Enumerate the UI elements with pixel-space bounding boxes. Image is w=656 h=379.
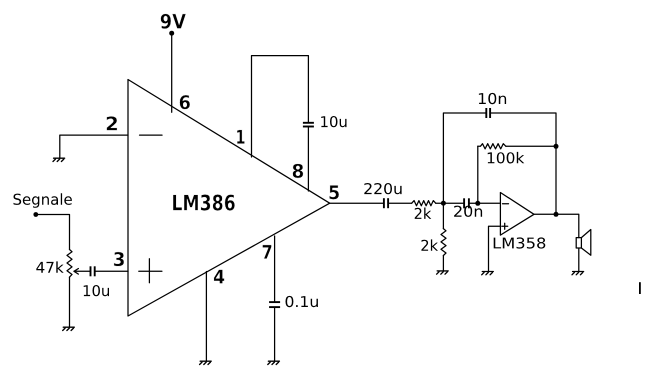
speaker LS1 bbox=[576, 230, 591, 256]
ground potentiometer bbox=[63, 327, 75, 330]
capacitor C3 220u bbox=[384, 198, 388, 208]
pin 5 label bbox=[329, 185, 339, 199]
op-amp U1 LM386 body bbox=[128, 80, 330, 317]
value label 0.1u bbox=[286, 296, 318, 307]
wire pin 1 loop bbox=[252, 56, 309, 157]
wire node A up to C4 bbox=[443, 113, 486, 203]
node B junction dot bbox=[475, 201, 480, 206]
wire C6 to ground bbox=[274, 307, 276, 361]
capacitor C4 10n bbox=[486, 108, 490, 118]
resistor R3 2k shunt bbox=[441, 229, 446, 256]
wire R3 to ground bbox=[442, 256, 444, 271]
wire speaker to ground bbox=[578, 248, 580, 271]
wire pin 4 to ground bbox=[205, 272, 207, 361]
value label 2k shunt bbox=[421, 239, 438, 250]
wire node A down to R3 bbox=[442, 203, 444, 228]
capacitor C5 20n bbox=[464, 198, 469, 208]
power 9V label bbox=[161, 14, 186, 29]
value label 220u bbox=[364, 183, 401, 194]
pin 7 label bbox=[263, 245, 272, 259]
node A junction dot bbox=[441, 201, 446, 206]
wire R2 to node A bbox=[436, 202, 444, 204]
pin 1 label bbox=[237, 130, 245, 144]
ground speaker bbox=[572, 272, 584, 275]
ground U2 input bbox=[482, 272, 494, 275]
node Segnale terminal dot bbox=[33, 212, 38, 217]
wire pin 2 to ground bbox=[60, 135, 128, 158]
wire C5 to U2 inverting input bbox=[469, 202, 501, 204]
node 9V terminal dot bbox=[169, 31, 174, 36]
cursor mark bbox=[639, 282, 641, 294]
U1 value label LM386 bbox=[173, 194, 235, 210]
capacitor C2 10u bypass bbox=[303, 123, 314, 127]
value label 10u input bbox=[84, 285, 109, 296]
wire U2 output to speaker bbox=[534, 214, 579, 237]
wire Segnale to potentiometer top bbox=[36, 215, 70, 250]
pin 4 label bbox=[214, 270, 225, 284]
wire 9V to pin 6 bbox=[171, 33, 173, 112]
wire potentiometer to ground bbox=[69, 277, 71, 327]
pin 8 label bbox=[293, 164, 304, 178]
U2 non-inverting input symbol bbox=[502, 223, 508, 229]
U1 inverting input symbol bbox=[140, 134, 162, 136]
value label 20n bbox=[454, 206, 482, 217]
wire pin 5 output bbox=[330, 202, 384, 204]
wire U2 non-inverting input to ground bbox=[489, 226, 501, 271]
node U2 output junction dot bbox=[554, 212, 559, 217]
ground R3 bbox=[437, 271, 449, 274]
wire node B up to R4 bbox=[477, 146, 479, 203]
capacitor C6 0.1u bbox=[269, 302, 280, 307]
ground pin 4 bbox=[200, 361, 212, 364]
potentiometer R1 wiper arrow bbox=[74, 269, 91, 275]
U2 inverting input symbol bbox=[503, 203, 509, 205]
net label Segnale bbox=[14, 193, 72, 208]
pin 2 label bbox=[107, 116, 118, 130]
value label 10n bbox=[479, 93, 506, 104]
capacitor C1 10u input bbox=[91, 266, 95, 276]
value label 2k series bbox=[415, 208, 432, 219]
ground pin 7 bbox=[268, 361, 280, 364]
wire pin 7 to C6 bbox=[274, 236, 276, 302]
potentiometer R1 47k bbox=[67, 250, 72, 278]
node feedback junction dot bbox=[554, 144, 559, 149]
wire C1 to pin 3 bbox=[95, 270, 128, 272]
wire C2 to pin 8 bbox=[307, 127, 309, 192]
wire C4 to output branch bbox=[490, 113, 556, 214]
resistor R2 2k series bbox=[412, 201, 436, 206]
value label 10u bypass bbox=[321, 116, 346, 127]
U2 value label LM358 bbox=[494, 237, 546, 248]
wire node A to C5 bbox=[443, 202, 464, 204]
value label 47k bbox=[36, 261, 63, 272]
U1 non-inverting input symbol bbox=[139, 259, 162, 283]
op-amp U2 LM358 body bbox=[500, 193, 534, 236]
resistor R4 100k bbox=[478, 144, 506, 149]
value label 100k bbox=[488, 152, 525, 164]
wire R4 to output branch bbox=[506, 145, 556, 147]
pin 6 label bbox=[180, 95, 190, 109]
wire C3 to R2 bbox=[388, 202, 412, 204]
pin 3 label bbox=[114, 252, 124, 266]
ground pin 2 bbox=[53, 158, 65, 161]
